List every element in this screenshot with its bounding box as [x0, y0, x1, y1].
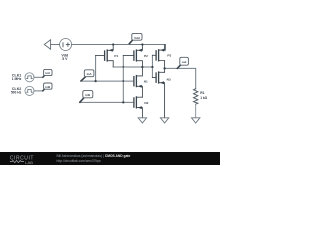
- svg-text:P3: P3: [167, 54, 171, 58]
- crossing bump P2 gate wire over inA wire: [122, 80, 124, 82]
- wire: out node to R1: [165, 68, 196, 88]
- clock source CLK1 1MHz: [12, 73, 34, 82]
- ground under N3: [160, 118, 168, 123]
- junction inB with P2 gate: [122, 101, 124, 103]
- transistor P2 (PMOS): [123, 45, 148, 68]
- svg-text:out: out: [182, 60, 187, 64]
- ground under R1: [192, 118, 200, 123]
- CircuitLab logo: [10, 156, 34, 165]
- wire: CLK2 to flag: [34, 90, 43, 92]
- wire: P2 gate down to inB net: [122, 56, 124, 103]
- junction on rail at P2: [141, 43, 143, 45]
- transistor N3 (NMOS): [152, 72, 170, 118]
- net flag inA (at CLK1): [43, 75, 45, 77]
- junction NAND node to inverter gates: [151, 66, 153, 68]
- junction on rail at P1: [112, 43, 114, 45]
- svg-text:N1: N1: [144, 80, 148, 84]
- svg-text:5 V: 5 V: [62, 57, 68, 61]
- transistor P1 (PMOS): [96, 45, 119, 68]
- svg-text:R1: R1: [200, 91, 204, 95]
- net flag inA (gates): [81, 77, 85, 81]
- wire: CLK1 to flag: [34, 76, 43, 78]
- net flag out: [177, 65, 180, 68]
- svg-text:P2: P2: [144, 54, 148, 58]
- svg-text:LAB: LAB: [25, 160, 33, 165]
- transistor N2 (NMOS): [134, 97, 149, 118]
- svg-text:inB: inB: [45, 85, 51, 89]
- voltage source V1 Vdd 5V: [60, 39, 72, 51]
- wire: arrow to V1: [51, 44, 60, 46]
- svg-text:inA: inA: [87, 72, 93, 76]
- transistor P3 (PMOS): [152, 45, 171, 73]
- net flag inB (gates): [80, 98, 84, 102]
- net flag inB (at CLK2): [43, 88, 45, 90]
- ground under N2: [138, 118, 146, 123]
- svg-text:1 kΩ: 1 kΩ: [200, 96, 207, 100]
- svg-text:500 Hz: 500 Hz: [11, 91, 22, 95]
- junction out node: [163, 67, 165, 69]
- svg-text:inA: inA: [45, 71, 51, 75]
- svg-text:http://circuitlab.com/cmv37fqw: http://circuitlab.com/cmv37fqw: [57, 159, 102, 163]
- svg-text:Bill Ashmanskas (ashmanskas) |: Bill Ashmanskas (ashmanskas) | CMOS AND …: [57, 154, 131, 158]
- wire: inA net horizontal: [81, 80, 134, 82]
- wire: Vdd top rail: [72, 45, 166, 51]
- svg-text:Vdd: Vdd: [134, 36, 140, 40]
- wire: inverter gate vertical: [151, 55, 153, 77]
- svg-text:inB: inB: [85, 93, 91, 97]
- svg-text:N3: N3: [167, 77, 171, 81]
- watermark bar: [0, 152, 220, 165]
- wire: P1 gate down to inA net: [95, 56, 97, 82]
- ground arrow flag at V1 minus: [44, 40, 50, 49]
- svg-text:1 MHz: 1 MHz: [12, 77, 22, 81]
- wire: NAND output node: [113, 66, 152, 68]
- svg-text:P1: P1: [114, 54, 118, 58]
- resistor R1 1kOhm: [194, 89, 208, 118]
- watermark text: [57, 154, 131, 163]
- wire: inB net horizontal: [80, 101, 134, 103]
- net flag Vdd on rail: [129, 40, 132, 44]
- clock source CLK2 500Hz: [11, 86, 34, 95]
- crossing bump P2 gate wire over NAND wire: [122, 66, 124, 68]
- junction inA with P1 gate: [94, 80, 96, 82]
- svg-text:N2: N2: [144, 101, 148, 105]
- junction NAND node at N1/P2 drains: [141, 66, 143, 68]
- transistor N1 (NMOS): [134, 67, 148, 97]
